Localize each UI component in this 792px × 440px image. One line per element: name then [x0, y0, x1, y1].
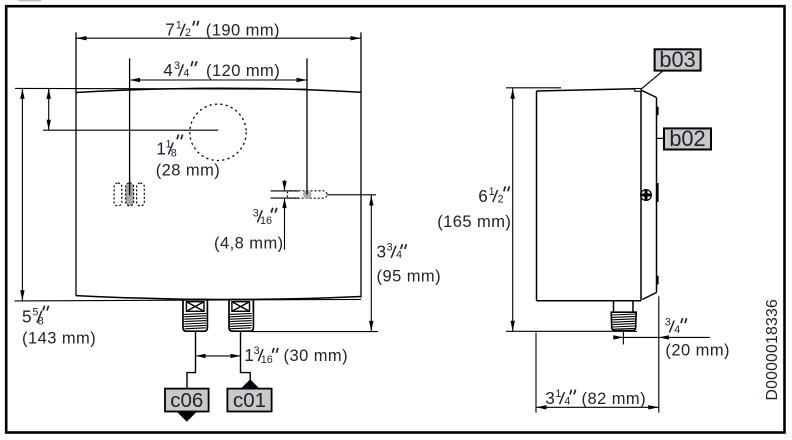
leader line c06	[187, 331, 196, 389]
text 1 3/16 inch (30 mm)	[244, 345, 348, 366]
svg-text:2: 2	[498, 193, 504, 205]
svg-text:6: 6	[478, 186, 488, 206]
svg-text:(143 mm): (143 mm)	[22, 330, 96, 348]
svg-text:D0000018336: D0000018336	[764, 299, 781, 400]
svg-text:c06: c06	[170, 389, 203, 412]
svg-text:3: 3	[545, 388, 555, 408]
front view left edge + extension	[75, 32, 77, 295]
label box b03	[655, 47, 701, 72]
wall tab top	[656, 107, 658, 115]
front view top curved edge	[76, 88, 361, 92]
svg-text:3: 3	[387, 242, 393, 254]
svg-text:3: 3	[253, 207, 259, 219]
arrow 3.75 down	[369, 321, 373, 332]
arrow 3.75 up	[369, 195, 373, 206]
svg-text:5: 5	[22, 307, 32, 327]
side view front-right edge	[640, 89, 642, 301]
arrow 6.5 up	[511, 88, 515, 99]
wall tab bottom	[656, 276, 658, 285]
svg-text:3: 3	[665, 316, 671, 328]
side view back slant bottom	[642, 293, 656, 300]
svg-text:(120 mm): (120 mm)	[206, 62, 280, 80]
svg-text:(190 mm): (190 mm)	[206, 22, 280, 40]
dim line 3 3/4 vertical	[370, 195, 372, 331]
arrow 30mm left	[196, 354, 206, 358]
arrowheads front view	[20, 36, 373, 358]
side view back slant top	[641, 90, 656, 97]
svg-text:3: 3	[254, 345, 260, 357]
text 5 5/8 inch	[22, 306, 49, 328]
svg-text:4: 4	[674, 324, 680, 336]
text 3/4 inch	[665, 316, 687, 336]
gray hole in right slot	[303, 190, 311, 198]
dim line 3/4	[613, 336, 710, 338]
top clip b03 notch	[635, 89, 641, 92]
label box c01	[227, 389, 271, 412]
leader line c01	[241, 331, 251, 380]
dim line 7 1/2	[76, 37, 361, 39]
fitting c06 x-box	[186, 302, 204, 312]
arrow 3.25 left	[536, 405, 547, 409]
blanking plug dotted circle	[190, 104, 246, 160]
arrow 5.625 up	[20, 88, 24, 99]
svg-text:(4,8 mm): (4,8 mm)	[214, 235, 284, 253]
arrow 7.5 right	[351, 36, 362, 40]
side view left edge	[536, 91, 538, 301]
svg-text:8: 8	[171, 147, 177, 159]
mounting slot group left (dotted)	[114, 183, 144, 206]
svg-text:(165 mm): (165 mm)	[437, 213, 511, 231]
arrow 30mm right	[231, 354, 241, 358]
bottom extension line	[506, 330, 637, 332]
arrow 28mm up	[47, 88, 51, 99]
fitting c01 body	[229, 300, 253, 332]
svg-text:7: 7	[165, 20, 175, 40]
dim line 4 3/4	[130, 79, 307, 81]
dim line 5 5/8 vertical	[21, 88, 23, 300]
arrow 7.5 left	[76, 36, 87, 40]
arrow slot up	[282, 198, 286, 208]
slot dim tick top	[271, 190, 299, 192]
arrow 6.5 down	[511, 321, 515, 332]
label box c06	[165, 389, 209, 412]
hole center line right	[306, 58, 308, 194]
svg-text:(82 mm): (82 mm)	[582, 390, 647, 408]
svg-text:(28 mm): (28 mm)	[156, 162, 221, 180]
text 1 1/8 inch	[156, 135, 182, 160]
top extension tick	[506, 87, 561, 89]
slot dim tick bottom	[271, 197, 299, 199]
arrow 4.75 right	[297, 78, 308, 82]
front view bottom curved edge	[76, 296, 361, 300]
side view back edge	[656, 98, 658, 293]
leader line b03	[641, 71, 663, 89]
svg-text:1: 1	[489, 186, 495, 198]
fitting c01 x-box	[232, 302, 250, 312]
leader line b02	[657, 137, 665, 139]
diamond marker c06	[176, 399, 198, 421]
dim line 28mm vertical	[48, 88, 50, 130]
fitting center line	[622, 331, 624, 345]
svg-text:16: 16	[260, 215, 272, 227]
side view top edge	[537, 89, 636, 91]
svg-text:4: 4	[564, 396, 570, 408]
side bottom fitting thread body	[611, 312, 636, 330]
slot dim line below	[284, 198, 286, 250]
arrow slot down	[282, 181, 286, 191]
arrow 28mm down	[47, 120, 51, 131]
left extension line 3.25	[535, 333, 537, 413]
text 3 1/4 inch (82 mm)	[545, 388, 646, 408]
svg-text:8: 8	[38, 316, 44, 328]
svg-text:1: 1	[176, 20, 182, 32]
arrow 4.75 left	[130, 78, 141, 82]
side view bottom edge	[537, 300, 642, 302]
side fitting thread lines	[612, 314, 636, 329]
svg-text:4: 4	[163, 60, 173, 80]
svg-text:16: 16	[261, 354, 273, 366]
fitting c01 thread	[230, 313, 252, 328]
line to circle center	[43, 129, 218, 131]
svg-text:b03: b03	[659, 47, 695, 72]
svg-text:(20 mm): (20 mm)	[665, 342, 730, 360]
svg-text:1: 1	[555, 388, 561, 400]
svg-text:3: 3	[377, 242, 387, 262]
bottom tangent extension line	[15, 299, 362, 301]
top edge artifact	[18, 0, 41, 2]
screw head	[641, 190, 652, 201]
mounting slot right (dotted keyhole)	[287, 191, 327, 198]
text 3/16 inch	[253, 207, 277, 227]
top tangent extension line	[15, 87, 307, 90]
fitting c06 thread	[184, 313, 206, 328]
svg-text:(95 mm): (95 mm)	[377, 268, 442, 286]
arrow 5.625 down	[20, 290, 24, 301]
fitting c06 body	[183, 300, 207, 332]
svg-text:2: 2	[185, 27, 191, 39]
slot right extension line	[327, 194, 376, 196]
dim line 30mm	[196, 355, 241, 357]
side bottom fitting neck	[614, 301, 634, 312]
right extension line	[658, 296, 660, 412]
svg-text:4: 4	[183, 68, 189, 80]
svg-text:1: 1	[244, 345, 254, 365]
dim line 3.25	[536, 406, 659, 408]
svg-text:3: 3	[174, 60, 180, 72]
text 7 1/2 inch	[165, 20, 198, 40]
arrow 3/4 right	[613, 335, 623, 339]
label box b02	[664, 126, 711, 151]
arrowheads side view	[511, 88, 669, 409]
front view right edge + extension	[360, 32, 362, 297]
svg-text:(30 mm): (30 mm)	[284, 347, 349, 365]
svg-text:1: 1	[156, 138, 166, 158]
text 4 3/4 inch	[163, 60, 197, 80]
dim line 6.5 vertical	[512, 88, 514, 331]
slot dim line above	[284, 180, 286, 191]
svg-text:c01: c01	[233, 389, 266, 412]
text 3 3/4 inch	[377, 242, 407, 262]
fitting bottom extension line	[251, 331, 378, 333]
svg-text:b02: b02	[669, 126, 705, 151]
middle gray slot	[126, 183, 134, 206]
text 6 1/2 inch	[478, 186, 509, 206]
diamond marker c01	[239, 379, 261, 401]
svg-text:4: 4	[396, 249, 402, 261]
wall tab middle	[656, 183, 658, 202]
hole center line left	[129, 58, 131, 195]
arrow 3.25 right	[648, 405, 659, 409]
arrow 3/4 left	[659, 335, 669, 339]
